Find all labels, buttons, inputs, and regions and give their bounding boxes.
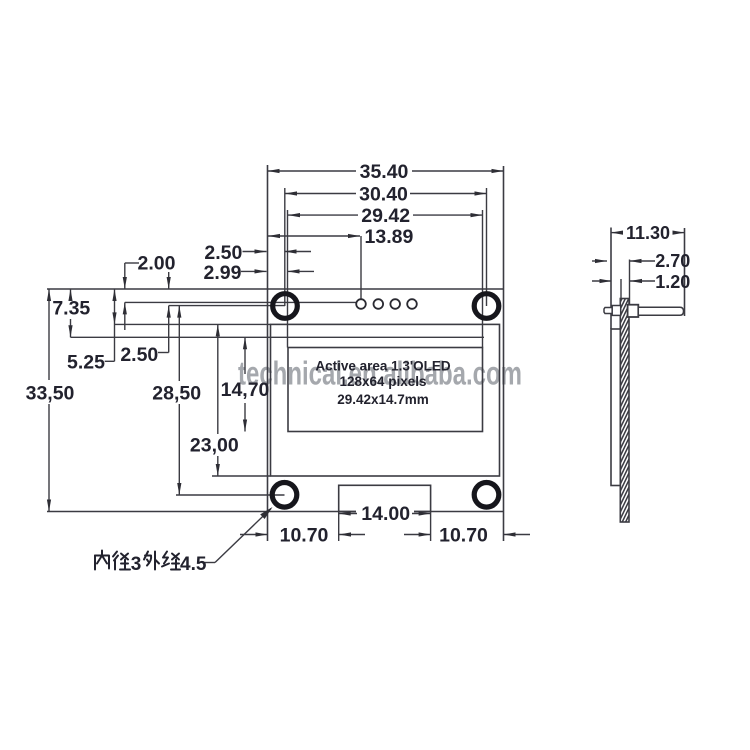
dimension 29.42 [288, 214, 358, 216]
svg-text:7.35: 7.35 [52, 297, 90, 319]
svg-text:14,70: 14,70 [221, 379, 270, 401]
svg-text:35.40: 35.40 [360, 161, 409, 183]
dimension 14.00 [356, 504, 414, 522]
svg-text:2.70: 2.70 [655, 251, 690, 271]
extension line top-left hole centre vertical [284, 188, 286, 306]
svg-text:11.30: 11.30 [626, 223, 670, 243]
pin hole 4 [407, 299, 417, 309]
active area rectangle [288, 348, 483, 432]
extension line top-right hole centre vertical [486, 188, 488, 306]
leader note inner dia 3 outer dia 4.5 [203, 562, 215, 564]
svg-text:Active area 1.3'OLED: Active area 1.3'OLED [315, 358, 451, 373]
mounting hole bottom-left [272, 483, 297, 508]
side view glass left edge and extension [610, 228, 612, 330]
dimension 23,00 [217, 324, 219, 434]
side view solder nub [604, 308, 612, 314]
hole centre line B [169, 305, 285, 307]
display top extension line C [114, 323, 271, 325]
svg-text:2.99: 2.99 [204, 262, 242, 284]
dimension 13.89 [268, 235, 360, 237]
extension line active-right vertical [482, 210, 484, 348]
dimension 11.30 [611, 232, 622, 234]
PCB outline bottom edge with left extension [47, 511, 504, 513]
glass top line D [71, 336, 485, 338]
mounting hole bottom-right [474, 483, 499, 508]
PCB outline top edge with left extension [47, 288, 504, 290]
svg-text:1.20: 1.20 [655, 272, 690, 292]
svg-text:29.42x14.7mm: 29.42x14.7mm [337, 392, 429, 407]
svg-text:3: 3 [131, 554, 142, 575]
dimension 2.50 top [243, 251, 267, 253]
watermark technical.en.alibaba.com [238, 356, 522, 393]
dimension 30.40 [285, 193, 356, 195]
pin hole 1 [356, 299, 366, 309]
connector box 14.00 [339, 485, 431, 511]
svg-text:10.70: 10.70 [439, 525, 488, 547]
mounting hole top-left [273, 294, 298, 319]
dimension 2.70 [592, 260, 607, 262]
extension line active-left vertical [287, 210, 289, 348]
dimension 2.50 left [158, 352, 169, 354]
side view PCB hatched bar [620, 277, 629, 540]
13.89 drop line to first pin [360, 236, 362, 299]
pin row line A [125, 301, 357, 303]
dimension 35.40 [268, 170, 357, 172]
side view pin [638, 307, 683, 315]
side view right extension line [684, 228, 686, 316]
side view header block [628, 305, 639, 317]
dimension 7.35 [70, 289, 72, 296]
dimension 14,70 [244, 337, 246, 374]
display module rectangle [271, 324, 500, 476]
connector box right extension down [430, 512, 432, 542]
mounting hole top-right [474, 294, 499, 319]
dimension 33,50 [48, 289, 50, 380]
dimension 28,50 [178, 306, 180, 381]
svg-text:4.5: 4.5 [180, 554, 207, 575]
svg-text:23,00: 23,00 [190, 435, 239, 457]
dimension 2.00 [125, 262, 139, 264]
svg-text:14.00: 14.00 [361, 503, 410, 525]
display bottom extension line E [212, 475, 271, 477]
svg-text:13.89: 13.89 [365, 226, 414, 248]
PCB right edge with extensions [503, 166, 505, 541]
svg-text:2.00: 2.00 [138, 253, 176, 275]
svg-text:33,50: 33,50 [26, 383, 75, 405]
svg-text:10.70: 10.70 [280, 525, 329, 547]
svg-text:2.50: 2.50 [204, 242, 242, 264]
dimension 2.99 [241, 270, 267, 272]
connector box left extension down [338, 512, 340, 542]
dimension 10.70 left [240, 534, 268, 536]
svg-text:128x64 pixels: 128x64 pixels [339, 374, 426, 389]
leader text nei jing 3 wai jing 4.5 [95, 551, 109, 570]
pin hole 3 [390, 299, 400, 309]
svg-text:30.40: 30.40 [359, 184, 408, 206]
dimension 5.25 [105, 360, 115, 362]
pin hole 2 [374, 299, 384, 309]
dimension 10.70 right [404, 534, 431, 536]
svg-text:28,50: 28,50 [152, 383, 201, 405]
svg-text:5.25: 5.25 [67, 351, 105, 373]
side view glass tab [612, 306, 621, 316]
PCB left edge with extensions [267, 165, 269, 541]
bottom hole centre line F [176, 494, 285, 496]
svg-text:2.50: 2.50 [120, 344, 158, 366]
dimension 1.20 [592, 280, 612, 282]
svg-text:29.42: 29.42 [361, 205, 410, 227]
side view glass panel [611, 329, 620, 486]
